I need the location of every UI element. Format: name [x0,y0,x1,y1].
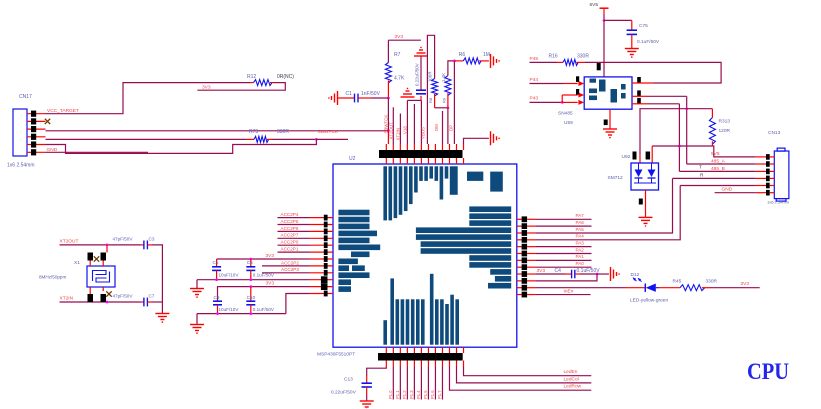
junction P43 RE/DE [561,101,564,104]
svg-text:P1.3: P1.3 [409,390,414,399]
wire C4 right lead [575,273,580,275]
svg-text:P1.1: P1.1 [395,390,400,399]
svg-text:R7: R7 [394,52,401,58]
wire C4 to junction [580,273,597,275]
resistor R45 [680,285,705,291]
svg-text:ACC2P3: ACC2P3 [281,267,299,272]
junction C4/ground [596,273,599,276]
resistor R7 [385,63,391,83]
wire XT2OUT [60,244,141,246]
ground right of top bar [490,131,492,145]
wire CN17 pin6 GND stub [46,151,149,153]
svg-text:ACC2P1: ACC2P1 [281,247,299,252]
svg-text:C3: C3 [149,236,155,241]
svg-text:1x6 2.54mm: 1x6 2.54mm [7,163,35,169]
MCU bottom pin-number bar [378,353,463,361]
wire rail2 to MCU row12 [286,294,310,314]
wire InEn [535,294,590,296]
wire B line down [678,104,680,172]
svg-text:1x6 2.54mm: 1x6 2.54mm [767,200,790,205]
svg-text:1M: 1M [483,52,490,58]
svg-text:SBWTCK: SBWTCK [318,129,339,135]
svg-text:CN17: CN17 [19,94,32,100]
ground below C3/C7 [155,313,169,315]
svg-text:10uF/10V: 10uF/10V [219,307,240,312]
wire 5V5 to SN485 VCC [603,20,605,77]
wire R8 to junction [435,107,448,109]
wire P43 to DE arrow [562,101,578,103]
capacitor C1 [354,94,356,103]
junction C6 bottom [249,278,252,281]
wire SN485 A [632,95,647,97]
ground below C13 [360,400,374,402]
wire 5V5 down [603,14,605,20]
svg-text:U2: U2 [349,156,356,162]
wire CN13 GND row [715,192,756,194]
CN17 pins with pin-number blocks [27,113,46,115]
wire V18 to C2 [407,99,421,101]
wire R16 left lead [557,61,563,63]
wire gnd to C1 [338,97,355,99]
resistor R73 [254,136,269,142]
wire R16 right lead [577,61,585,63]
wire R6 left lead [454,60,463,62]
svg-text:5V5: 5V5 [711,151,720,157]
svg-text:R16: R16 [549,53,558,59]
svg-text:C4: C4 [555,268,562,274]
svg-text:0.22uF/50V: 0.22uF/50V [414,63,419,86]
junction R73 output [315,138,318,141]
wire R9 bottom lead [447,93,449,108]
svg-text:R: R [700,172,704,178]
wire SM712 to ground [645,190,647,217]
svg-text:C6: C6 [247,260,253,265]
capacitor C7 [141,301,144,303]
ground below C75 [625,48,639,50]
wire ground rail row10 [197,279,310,281]
wire R8 bottom lead [434,94,436,108]
wire SN485 B [632,103,647,105]
wire R313 bottom lead [711,141,713,146]
wire SBWTCK stub [316,138,348,140]
junction C9 bottom [216,312,219,315]
wire 5V5 to C75 [604,19,632,21]
svg-text:PA2: PA2 [576,247,585,252]
ground right of R6 [490,54,492,68]
svg-text:3V3: 3V3 [395,34,404,40]
svg-text:DM: DM [434,124,439,131]
wire column 5 [413,104,415,144]
junction 5V5 rail [603,19,606,22]
svg-text:5V5: 5V5 [590,2,599,8]
capacitor C10 [250,287,252,301]
input arrow DI [578,81,584,86]
svg-text:R8: R8 [428,97,433,103]
junction R8/R9 node [447,106,450,109]
wire PA4 / R line [535,186,680,240]
svg-text:C13: C13 [344,377,353,383]
svg-text:DP: DP [448,125,453,131]
svg-text:1nF/50V: 1nF/50V [361,91,381,97]
wire 3V3 rail top [388,39,421,41]
wire 3V3 rail2 to MCU row11 [218,287,310,301]
wire MCU pin to C13 [367,367,387,377]
SM712 pin blocks top [633,152,637,160]
svg-text:MSP430F5510PT: MSP430F5510PT [317,352,355,358]
wire 3V3 rail to MCU row7 [217,258,310,260]
junction C10 bottom [249,312,252,315]
svg-text:PA4: PA4 [576,234,585,239]
MCU top pin-number bar [379,150,463,158]
svg-text:1.4K: 1.4K [441,73,446,82]
wire column 12 to ground [464,138,489,144]
wire LedEn [464,367,592,376]
wire LED to R45 [659,287,680,289]
capacitor C2 [416,89,426,91]
wire SN485 RO stub [632,82,652,84]
wires P1.0-P1.7 (MCU bottom port1) [392,367,394,400]
input arrow RE [578,93,584,98]
wire V18 column [406,100,408,144]
wire R73 right lead [267,138,272,140]
wire C13 to ground [366,387,368,395]
wire row9 to C4 [535,273,565,275]
svg-text:0.1uF/50V: 0.1uF/50V [253,273,275,278]
svg-text:47pF/50V: 47pF/50V [113,293,134,298]
svg-text:0R(NC): 0R(NC) [277,74,294,80]
svg-text:P1.6: P1.6 [430,390,435,399]
wire junction to ground [597,273,609,275]
junction XT2IN/crystal [106,301,109,304]
crystal X1 body [87,266,115,287]
svg-text:3V3: 3V3 [537,268,546,274]
MCU left pin-name texts (rendered bars) [338,210,369,216]
junction XT2OUT/crystal [106,244,109,247]
svg-text:D12: D12 [631,272,640,278]
wire rail1 to ground [196,280,198,289]
ground below SN485 [603,128,617,130]
wire CN13 R row [680,185,756,187]
resistor R313 [709,118,715,145]
crystal top pins [88,253,94,261]
svg-text:C9: C9 [214,295,220,300]
crystal bottom pins [88,294,94,302]
wire CN13 485_B [679,170,755,172]
svg-text:0.22uF/50V: 0.22uF/50V [331,390,357,396]
capacitor C13 [362,382,372,384]
wire R313 top lead [711,109,713,118]
wire CN13 T row [673,177,756,179]
svg-text:XT2IN: XT2IN [60,296,74,302]
junction C6 top [249,258,252,261]
pin number block RE [576,89,579,95]
wire P45 to R16 [530,61,558,63]
junction C5 bottom [215,278,218,281]
junction R6/R9/PUR [453,60,456,63]
wire C3 to ground column [152,245,162,313]
wire R73 left lead [246,138,254,140]
svg-text:CPU: CPU [747,359,789,385]
junction A/rail [685,107,688,110]
wire R9 top lead [448,61,455,76]
crystal X1 symbol [93,271,107,282]
wire R73 to junction [272,138,316,140]
pin number block SN485 VCC [597,63,601,70]
svg-text:C10: C10 [247,295,256,300]
wire rail2 to ground [196,314,198,325]
wire R45 right lead [702,287,710,289]
svg-text:10uF/10V: 10uF/10V [219,273,240,278]
op-amp U59 SN485 body [584,77,632,109]
svg-text:R9: R9 [442,97,447,103]
wire SM712 right pin [651,146,653,163]
wire rail A (SM712 left) [640,109,712,154]
MCU bottom pin stubs [385,347,387,353]
wire R12 left lead [250,82,254,84]
no-connect X on CN17 pin 2 [45,119,50,124]
wire row11 to LED [535,287,625,289]
svg-text:V18: V18 [403,126,408,134]
ground right of C4 [610,267,612,281]
svg-text:ACC2P2: ACC2P2 [281,260,299,265]
svg-text:GND: GND [722,186,733,192]
junction SBWTCK column [387,129,390,132]
CN13 pins with pin-number blocks [756,156,766,158]
junction R7/C1/SBWTCK [387,97,390,100]
MCU left pin stubs with pin numbers [310,217,333,219]
svg-text:PA7: PA7 [576,213,585,218]
junction C10 top [249,285,252,288]
SN485 right pin blocks [637,77,641,83]
svg-text:InEn: InEn [564,288,574,294]
svg-text:P44: P44 [530,77,539,83]
pin number block DI [576,76,579,82]
svg-text:P45: P45 [530,56,539,62]
wire junction to row10 [535,274,597,281]
wire DM loop [427,35,434,144]
wire R12 to 3V3 stub [197,83,285,91]
svg-text:R12: R12 [247,74,256,80]
svg-text:485_B: 485_B [711,166,725,172]
wire SM712 left pin [639,154,641,163]
svg-text:U59: U59 [564,120,573,126]
svg-text:U92: U92 [622,154,631,160]
svg-text:XT2OUT: XT2OUT [389,122,394,140]
MCU top pin stubs [385,144,387,150]
wire P44 to SN485 [530,83,564,85]
svg-text:PA3: PA3 [576,240,585,245]
svg-text:X1: X1 [74,260,80,266]
resistor R6 1M [463,58,481,64]
svg-text:R73: R73 [249,129,258,135]
svg-text:C5: C5 [213,260,219,265]
ground below C9 rail [190,324,204,326]
svg-text:PA5: PA5 [576,227,585,232]
svg-text:3V3: 3V3 [266,281,275,287]
wire PA5 / T line [535,178,672,233]
svg-text:P43: P43 [530,96,539,102]
svg-text:P1.5: P1.5 [423,390,428,399]
resistor R16 [563,59,578,65]
ground below SM712 [639,216,653,218]
svg-text:3V3: 3V3 [266,253,275,259]
ground at V18 node [407,88,409,90]
wire CN13 485_A [687,163,756,165]
svg-text:ACC2P0: ACC2P0 [281,240,299,245]
wire XT2OUT column [392,107,394,144]
svg-text:330R: 330R [706,278,718,284]
SN485 internal pin names [589,89,597,94]
wires/net labels PA7,PA6,PA3..PA0 (MCU right short rows) [535,218,591,220]
svg-text:R313: R313 [719,119,731,125]
wire R16 to RO loop [584,62,721,83]
svg-text:T: T [699,165,702,171]
wire P43 to RE [561,95,563,102]
svg-text:LedCol: LedCol [564,376,579,382]
svg-text:SM712: SM712 [608,175,624,181]
svg-text:ACC2P6: ACC2P6 [281,226,299,231]
svg-text:3V3: 3V3 [202,85,211,91]
wire rail B (SM712 right) [652,145,712,147]
capacitor C4 [571,270,573,279]
connector CN17 [13,109,27,156]
svg-text:R45: R45 [673,278,682,284]
svg-text:0.1uF/50V: 0.1uF/50V [637,39,660,45]
svg-text:330R: 330R [577,53,589,59]
wire R45 to 3V3 [710,287,760,289]
MCU top pin-name texts (rendered bars) [383,166,387,220]
MCU right pin-name texts (rendered bars) [469,206,511,212]
LED D12 [644,284,646,292]
svg-text:485_A: 485_A [711,158,726,164]
svg-text:P1.4: P1.4 [416,390,421,399]
svg-text:100R: 100R [428,72,433,83]
wire R12 right lead [270,82,274,84]
power symbol 5V5 [600,7,609,9]
wire ground rail2 [197,313,286,315]
wire DP column [447,108,449,144]
svg-text:ACC2P7: ACC2P7 [281,233,299,238]
svg-text:PA1: PA1 [576,254,585,259]
ground above C2 [420,47,422,49]
svg-text:C7: C7 [149,293,155,298]
svg-text:8MHz/50ppm: 8MHz/50ppm [39,275,66,280]
svg-text:LED-yellow-green: LED-yellow-green [630,298,668,304]
wire 3V3 to R7 [387,40,389,62]
svg-text:VBUS: VBUS [421,127,426,139]
svg-text:XT2OUT: XT2OUT [60,238,79,244]
svg-text:P1.0: P1.0 [388,390,393,399]
svg-text:P1.7: P1.7 [437,390,442,399]
resistor R12 [254,80,273,86]
no-connect X on crystal top [94,256,99,261]
diode array U92 SM712 body [631,163,659,190]
junction B/rail [678,145,681,148]
svg-text:C1: C1 [346,91,353,97]
svg-text:4.7K: 4.7K [394,76,405,82]
svg-text:LedEn: LedEn [564,369,578,375]
capacitor C5 [216,259,218,267]
resistor R8 100R [432,79,438,96]
diode pair inside SM712 [635,170,643,178]
SN485 ground pin [604,120,608,126]
svg-text:47pF/50V: 47pF/50V [113,236,134,241]
wire XT2IN [60,301,141,303]
wire LedCol [457,367,592,383]
svg-text:ACC2P5: ACC2P5 [281,219,299,224]
wire PUR column [453,61,455,144]
ground below C5 rail [190,288,204,290]
capacitor C3 [141,244,144,246]
wire CN17 pin4 to R73 [46,138,247,140]
resistor R9 1.4K [445,76,451,96]
capacitor C75 [627,29,637,31]
wire C2 top lead [420,56,422,90]
capacitor C9 [213,300,222,302]
wire CN17 pin5 jog path [46,139,317,153]
ground left of C1 [337,91,339,105]
wire column 9 [442,111,444,144]
MCU bottom pin-name texts (rendered bars) [383,320,387,345]
wire P43 to SN485 [530,101,563,103]
wire R6 right lead [479,60,489,62]
svg-text:ACC2P4: ACC2P4 [281,212,299,217]
wires/net labels ACC2P4..ACC2P1 (MCU left rows 1-6) [278,217,310,219]
wire C1 to junction red [358,97,371,99]
wire LedRow [449,367,591,391]
svg-text:PA0: PA0 [576,261,585,266]
wire rail B to CN13 5V5 [712,146,755,157]
svg-text:LedRow: LedRow [564,384,582,390]
capacitor C6 [250,259,252,267]
wire SBWTCK column [387,98,389,131]
svg-text:R6: R6 [459,52,466,58]
svg-text:C75: C75 [639,23,648,29]
wire VBUS column [420,100,422,144]
wire A line down [686,96,688,164]
svg-text:330R: 330R [277,129,289,135]
wire VCC_TARGET to R12 [46,83,251,114]
svg-text:SN485: SN485 [558,111,573,117]
wires/net labels ACC2P2, ACC2P3 (MCU left rows 8-9) [262,265,310,267]
wire CN17 pin3 to SBWTCK node [46,130,389,132]
wire C75 to ground [631,34,633,48]
svg-text:XT2IN: XT2IN [396,128,401,140]
svg-text:120R: 120R [719,128,731,134]
SM712 ground pin block [639,199,643,205]
MCU U2 MSP430F5510PT body [333,164,517,347]
wire C1 to junction [371,97,388,99]
svg-text:P1.2: P1.2 [402,390,407,399]
wire R7 bottom lead [387,81,389,99]
no-connect X on crystal bottom [106,291,111,296]
MCU right pin stubs with pin numbers [517,218,522,220]
svg-text:PA6: PA6 [576,220,585,225]
svg-text:3V3: 3V3 [741,281,750,287]
connector CN13 body [774,151,789,199]
input arrow DE [578,100,584,105]
svg-text:CN13: CN13 [768,130,781,136]
svg-text:0.1uF/50V: 0.1uF/50V [253,307,275,312]
wire XT2IN column [399,114,401,145]
